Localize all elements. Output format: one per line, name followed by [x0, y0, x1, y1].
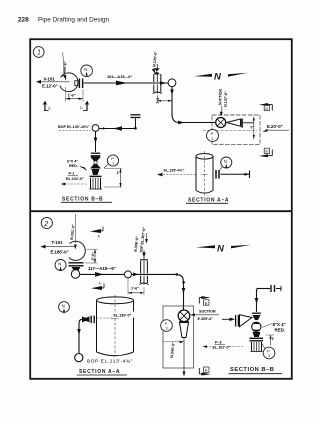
svg-text:B: B — [265, 149, 268, 154]
section cut arrow A (left) — [43, 101, 47, 111]
svg-text:B: B — [205, 300, 208, 305]
drop leg — [256, 290, 258, 312]
svg-text:N: N — [214, 72, 222, 83]
bottom elbow toward viewer — [75, 354, 83, 362]
leader line to vessel center — [39, 81, 70, 83]
svg-text:BOP EL.130'-10½": BOP EL.130'-10½" — [58, 125, 90, 129]
suction leader arrow — [221, 106, 223, 113]
label EL.130'-0" — [113, 312, 139, 318]
nozzle neck — [72, 267, 81, 271]
valve (dark) — [82, 316, 90, 322]
svg-text:6"X 4": 6"X 4" — [67, 160, 78, 164]
pump discharge centerline — [203, 129, 257, 131]
svg-text:E.20'-0": E.20'-0" — [267, 124, 283, 129]
drop leg — [78, 324, 80, 354]
svg-text:N: N — [58, 261, 61, 266]
north balloon — [221, 157, 232, 168]
svg-text:B: B — [265, 106, 268, 111]
valve body above run — [140, 261, 142, 273]
svg-text:SUCTION: SUCTION — [199, 310, 216, 314]
section cut arrow A (right) — [85, 101, 89, 111]
svg-text:SUCTION: SUCTION — [218, 88, 223, 105]
flow dot near elbow — [160, 81, 167, 85]
svg-text:EL.130'-0": EL.130'-0" — [114, 314, 132, 318]
svg-text:T-101: T-101 — [52, 240, 64, 245]
svg-text:A: A — [80, 106, 83, 111]
elbow turning east — [71, 270, 79, 278]
north balloon at nozzle — [55, 260, 66, 271]
SECTION B-B : drop leg — [95, 131, 97, 152]
valve flange bars — [91, 152, 100, 154]
vessel nozzle flange pair — [78, 79, 80, 89]
north arrow — [196, 245, 215, 248]
SECTION B-B : inlet flange pair (east) — [270, 285, 272, 292]
svg-text:N: N — [62, 303, 65, 308]
SECTION B-B : elbow down — [92, 125, 99, 132]
svg-text:B: B — [205, 368, 208, 373]
svg-text:V-101: V-101 — [44, 77, 56, 82]
pump flange bars — [250, 337, 264, 339]
svg-text:EL.135'-4½": EL.135'-4½" — [164, 168, 185, 172]
leader arrow N.118 — [63, 75, 66, 81]
svg-text:SECTION B–B: SECTION B–B — [230, 367, 274, 373]
elbow corner down — [79, 319, 82, 323]
east run into pump — [179, 122, 216, 124]
pump balloon P-3 — [161, 320, 173, 332]
pump nozzle (hatched) — [251, 342, 253, 352]
svg-text:P–3: P–3 — [215, 341, 222, 345]
section marker B (bottom) — [264, 148, 269, 153]
svg-text:A: A — [48, 106, 51, 111]
svg-text:8"X 4": 8"X 4" — [273, 322, 286, 327]
pump centerline mark — [253, 117, 255, 140]
flow arrow on pipe — [116, 81, 128, 86]
section cut marker a (top) — [90, 229, 101, 233]
leader arrow for V-101 — [36, 80, 41, 84]
drop to pump — [183, 282, 185, 310]
svg-text:RED.: RED. — [69, 164, 78, 168]
section marker B (top) — [259, 103, 268, 106]
leader arrow — [41, 245, 46, 249]
svg-text:N.137'-6": N.137'-6" — [224, 91, 229, 107]
svg-text:N: N — [217, 244, 225, 255]
svg-text:E.12'-0": E.12'-0" — [42, 84, 58, 89]
drawing number balloon 2 — [41, 217, 52, 228]
pump suction flange (plan) — [216, 118, 226, 128]
elbow corner down — [257, 289, 259, 292]
gate valve (vertical bowtie) — [91, 157, 101, 168]
svg-text:117—A15—6": 117—A15—6" — [88, 266, 116, 271]
valve on riser: stem and handwheel — [143, 250, 145, 259]
vessel V-101 (plan) — [60, 73, 78, 92]
svg-text:103—A15—6": 103—A15—6" — [107, 74, 133, 79]
north reference balloon N1 — [81, 65, 93, 77]
leader line to vessel center — [45, 246, 77, 248]
pipe 117-A15-6" east run — [80, 273, 176, 275]
svg-text:1': 1' — [272, 337, 275, 341]
nozzle flange pair (west) — [90, 316, 92, 324]
elbow turning down — [168, 79, 176, 87]
pump centerline south — [183, 338, 185, 375]
svg-text:1: 1 — [37, 50, 41, 57]
svg-text:EL.102'-0": EL.102'-0" — [66, 177, 84, 181]
label EL.135'-4.5" — [163, 166, 196, 172]
drawing number balloon 1 — [33, 47, 44, 58]
eccentric reducer (plan, pointing south) — [180, 323, 189, 338]
reducer flange bar — [241, 119, 243, 128]
dimension 2'-0" right of vessel — [87, 248, 98, 250]
section marker B (top) — [202, 296, 211, 299]
pump suction flange — [90, 175, 102, 177]
vertical run down from elbow — [171, 87, 173, 116]
fitting circle on run — [125, 271, 132, 278]
section marker B (bottom) — [204, 367, 209, 372]
pump outline — [163, 306, 194, 368]
valve ball body — [252, 322, 261, 331]
section cut marker a (mid) — [91, 286, 102, 290]
svg-text:1'-6": 1'-6" — [68, 93, 76, 97]
vessel nozzle stub — [75, 81, 78, 86]
svg-text:SECTION A–A: SECTION A–A — [188, 198, 229, 204]
SECTION A-A : north balloon — [59, 302, 70, 313]
svg-text:2: 2 — [43, 219, 48, 228]
svg-text:E.305'-6": E.305'-6" — [198, 317, 214, 321]
vessel nozzle flange (south) — [69, 262, 84, 264]
svg-text:RED.: RED. — [275, 327, 286, 332]
top run west — [257, 288, 271, 290]
pump balloon P-1 — [207, 130, 219, 142]
junction dots at corner — [176, 273, 179, 276]
north arrow — [194, 74, 212, 77]
vessel T-101 (plan) — [69, 241, 86, 260]
elbow corner to east run — [172, 114, 179, 123]
SECTION B-B : pipe from east — [99, 128, 134, 130]
svg-text:SECTION A–A: SECTION A–A — [79, 369, 120, 375]
lower bonnet — [253, 332, 261, 337]
svg-text:Pipe Drafting and Design: Pipe Drafting and Design — [38, 16, 109, 23]
leader arrow down — [146, 233, 148, 240]
dimension bracket — [266, 334, 275, 336]
nozzle flange pair — [215, 170, 217, 179]
nozzle line east — [221, 173, 250, 175]
valve body below run — [140, 276, 142, 283]
svg-text:EL.102'-0": EL.102'-0" — [213, 346, 231, 350]
pump balloon P-3 — [263, 347, 275, 359]
svg-text:E.185'-0": E.185'-0" — [51, 250, 69, 255]
pump suction flange (plan) — [178, 310, 190, 322]
svg-text:N: N — [224, 159, 227, 164]
dimension bracket right of valve — [104, 168, 122, 170]
pipe 103-A15-6" horizontal run — [84, 82, 169, 84]
svg-text:228: 228 — [18, 16, 29, 23]
svg-text:6": 6" — [251, 126, 255, 130]
reducer below valve — [92, 169, 100, 175]
svg-text:1'-6": 1'-6" — [131, 287, 139, 291]
SECTION A-A : vessel cylinder — [196, 157, 213, 191]
svg-text:BOP EL.113'-4¾": BOP EL.113'-4¾" — [87, 359, 133, 365]
pump outline (dashed) — [212, 115, 260, 145]
svg-text:N: N — [84, 67, 87, 72]
panel divider line — [30, 210, 292, 212]
SECTION A-A : vessel cylinder — [97, 301, 134, 353]
svg-text:SECTION B–B: SECTION B–B — [62, 197, 103, 203]
valve bonnet — [252, 312, 261, 314]
eccentric reducer (plan) — [227, 119, 241, 126]
leader arrow N.125 — [152, 68, 156, 74]
svg-text:P-1: P-1 — [69, 172, 75, 176]
inlet arrow into reducer — [222, 318, 231, 320]
svg-text:1': 1' — [117, 171, 120, 175]
flow arrow — [95, 272, 104, 277]
elbow corner turning south — [176, 274, 184, 282]
pump nozzle (hatched) — [90, 178, 92, 189]
drawing frame border — [30, 39, 292, 379]
valve balloon P1 — [107, 155, 118, 166]
eccentric reducer (wide west) — [235, 315, 237, 327]
riser with valve crossing pipe — [156, 64, 158, 70]
flow dot before valve — [133, 273, 139, 277]
stub to pump nozzle — [243, 122, 254, 124]
